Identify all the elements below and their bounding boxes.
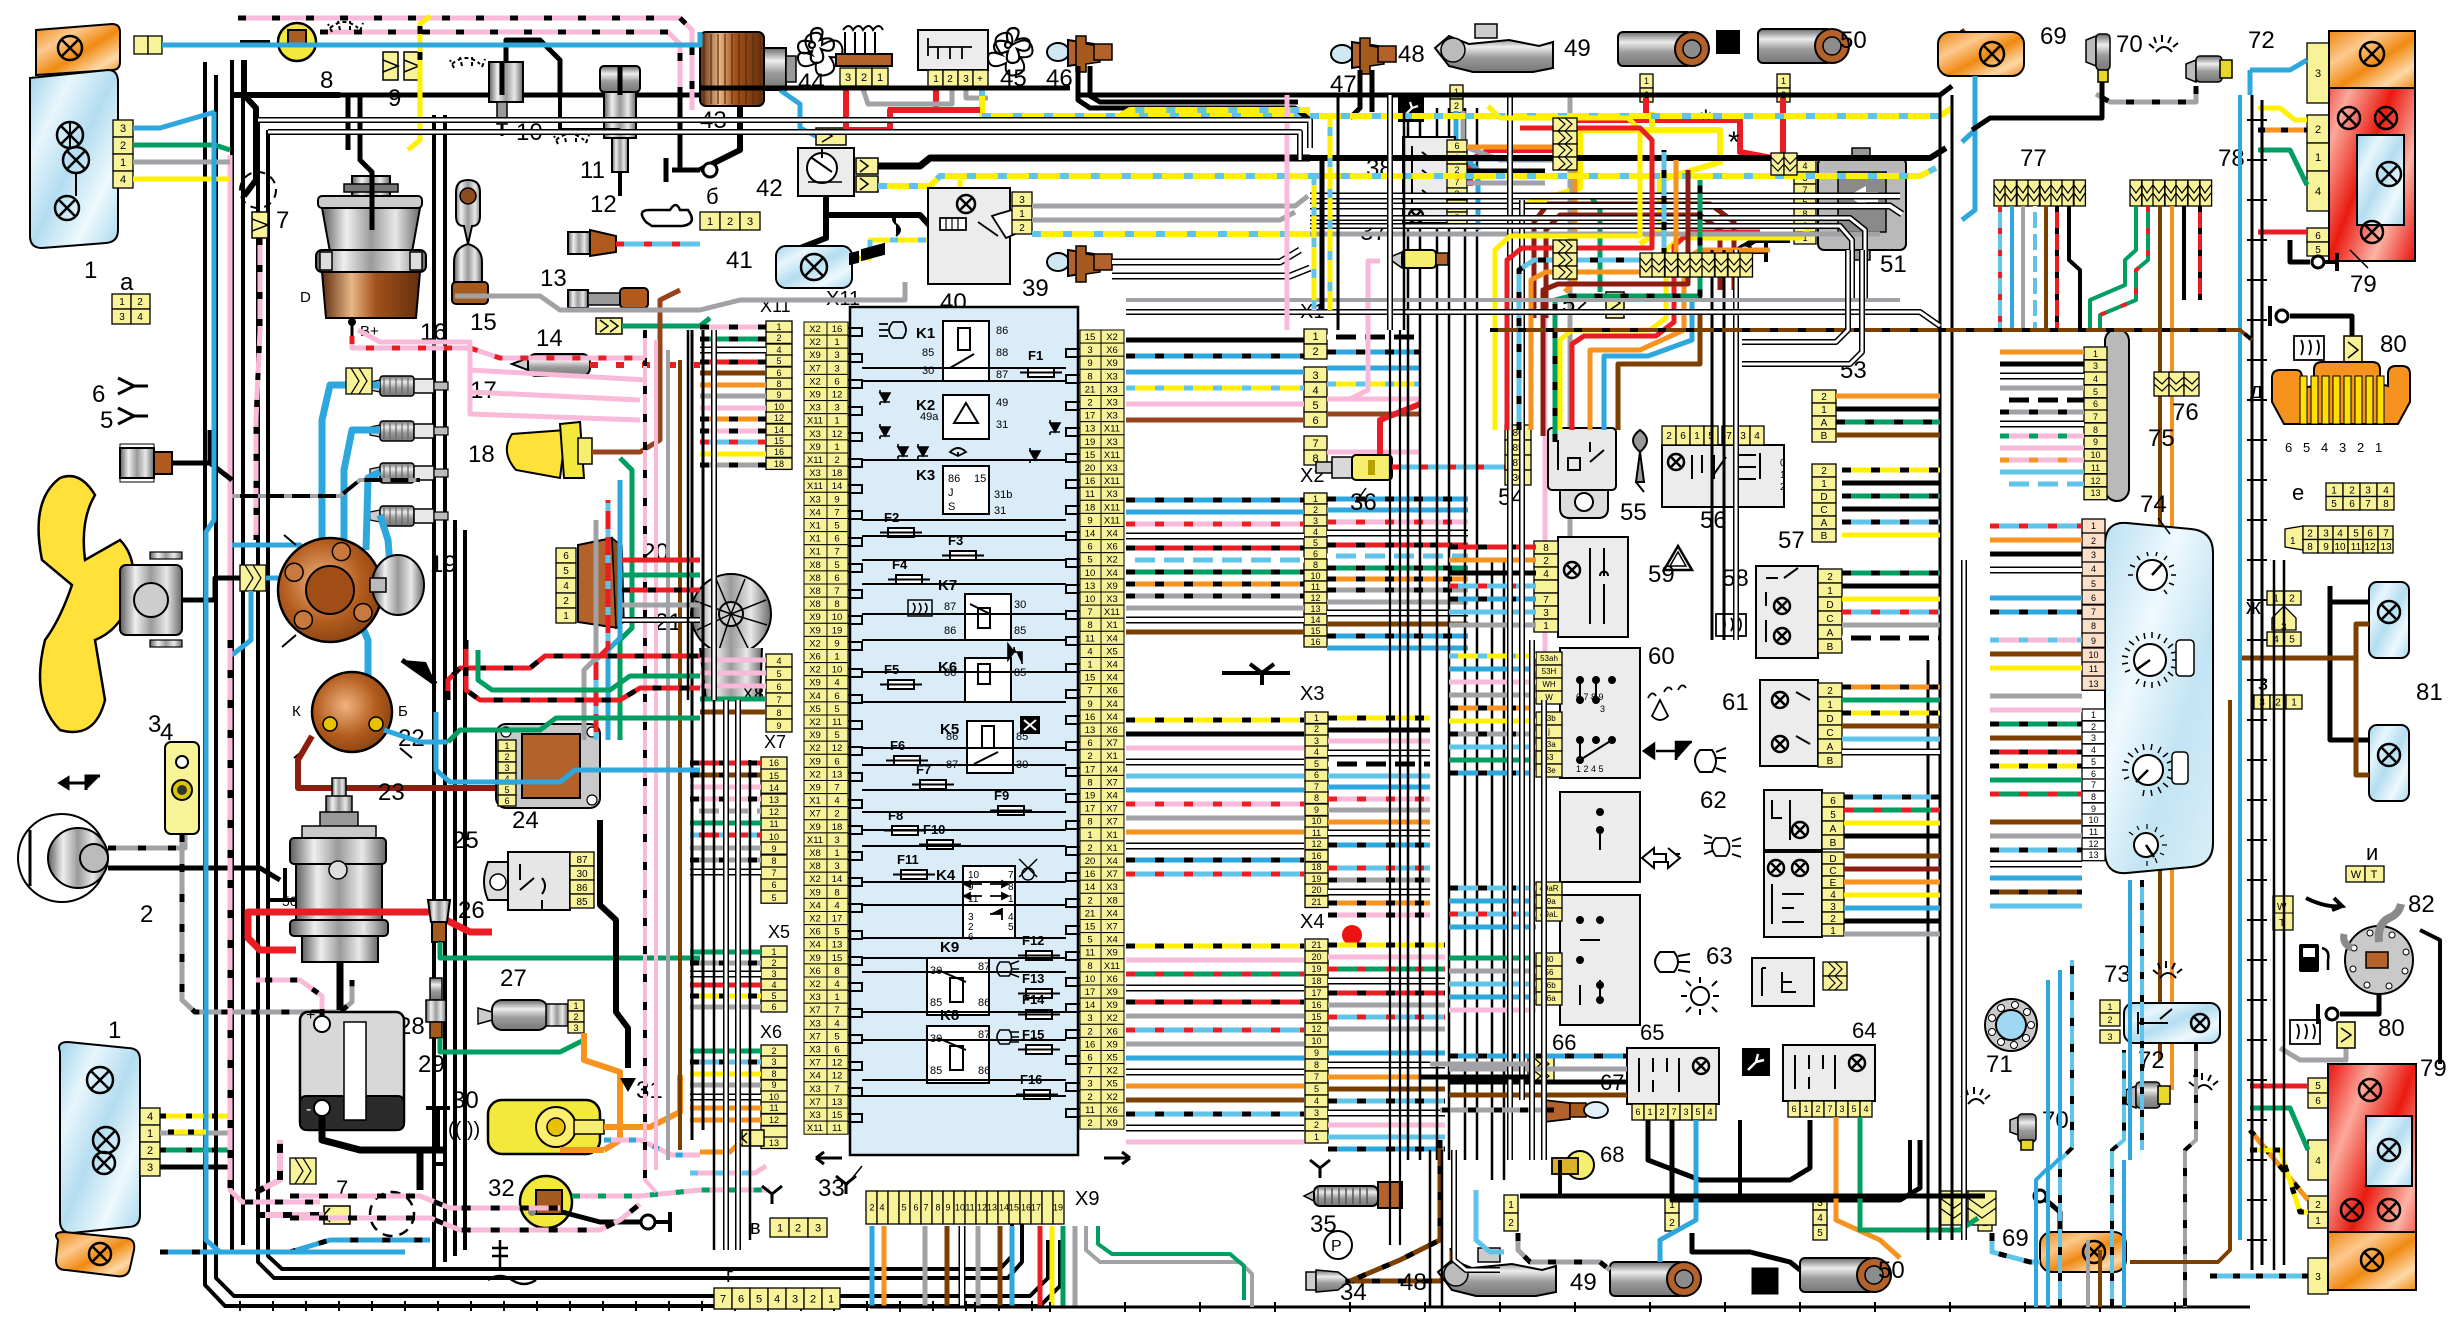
svg-text:X9: X9: [809, 953, 821, 964]
svg-text:X3: X3: [1106, 882, 1118, 893]
svg-text:15: 15: [1085, 332, 1096, 343]
svg-text:-: -: [306, 1101, 311, 1118]
svg-text:50: 50: [282, 893, 298, 909]
svg-text:1: 1: [1019, 209, 1025, 220]
wire left pink long: [230, 640, 320, 1202]
wire 81 black: [2330, 586, 2369, 602]
svg-text:10: 10: [774, 402, 784, 412]
window symbol 64-65: [1742, 1048, 1770, 1076]
svg-text:A: A: [1827, 742, 1834, 753]
svg-text:X3: X3: [1106, 437, 1118, 448]
starter 23 gear: [320, 812, 358, 828]
wire hlBL pin2 green: [160, 1148, 230, 1153]
wire yellow top left: [408, 60, 420, 150]
svg-text:5: 5: [1817, 1228, 1823, 1239]
svg-text:18: 18: [832, 822, 843, 833]
svg-text:14: 14: [832, 481, 843, 492]
svg-text:18: 18: [774, 459, 784, 469]
frame loop top runs: [258, 120, 1310, 148]
svg-text:X9: X9: [1106, 581, 1118, 592]
wire 43 blue: [780, 90, 816, 136]
svg-text:9: 9: [1087, 515, 1092, 526]
switch 62 pins b: [1822, 852, 1844, 937]
svg-text:X3: X3: [809, 1110, 821, 1121]
svg-text:6: 6: [2315, 1096, 2321, 1107]
connector 20: [556, 548, 576, 623]
svg-text:5: 5: [776, 356, 781, 366]
svg-text:16: 16: [1085, 476, 1096, 487]
svg-text:14: 14: [536, 325, 563, 352]
svg-text:6: 6: [771, 880, 776, 890]
svg-text:X2: X2: [809, 743, 821, 754]
svg-text:X7: X7: [764, 732, 786, 752]
svg-text:66: 66: [1552, 1030, 1576, 1055]
svg-text:6: 6: [1087, 1053, 1092, 1064]
svg-text:1: 1: [834, 337, 839, 348]
svg-text:1: 1: [2091, 521, 2096, 531]
svg-text:2: 2: [1087, 398, 1092, 409]
svg-text:X3: X3: [1106, 371, 1118, 382]
heat symbol 80b: [2290, 1020, 2320, 1044]
svg-text:30: 30: [1014, 599, 1026, 611]
switch 59 pins: [1534, 541, 1558, 632]
svg-text:+: +: [977, 74, 983, 85]
wire 49-50 yellow: [1502, 112, 1652, 206]
lamp 18 body: [507, 430, 566, 478]
ht wire coil: [352, 610, 368, 712]
svg-text:6: 6: [776, 682, 781, 692]
symbol washer: [1648, 685, 1686, 720]
wire fan43 top: [232, 32, 700, 45]
tail 79b strip: [2308, 1078, 2328, 1108]
svg-text:К: К: [292, 703, 301, 720]
svg-text:8: 8: [2383, 499, 2389, 510]
svg-text:18: 18: [832, 468, 843, 479]
block 33 right pin strip: [1080, 330, 1124, 1129]
clock 42 pins: [856, 158, 878, 174]
svg-text:4: 4: [834, 796, 839, 807]
svg-text:X1: X1: [809, 521, 821, 532]
svg-text:8: 8: [834, 599, 839, 610]
svg-text:1: 1: [1644, 76, 1649, 86]
X1 fan wires: [1327, 335, 1420, 340]
horn 2 body: [18, 814, 106, 902]
svg-text:2: 2: [563, 596, 569, 607]
wire 13 green: [622, 318, 710, 326]
coil red bundle: [448, 656, 700, 700]
svg-text:1: 1: [2093, 349, 2098, 359]
svg-text:2: 2: [2091, 722, 2096, 732]
X8 fan wires: [700, 658, 766, 663]
svg-text:1: 1: [1087, 830, 1092, 841]
connector X1: [1304, 329, 1327, 465]
X9 bend wires right: [1086, 1226, 1252, 1307]
relay 61 box: [1760, 680, 1818, 766]
connector pins headlight TL: [113, 120, 133, 188]
alternator terminal: [348, 318, 356, 326]
svg-text:6: 6: [2367, 528, 2373, 539]
svg-text:X9: X9: [809, 612, 821, 623]
svg-text:6: 6: [913, 1203, 918, 1213]
wire 14 reddash: [590, 362, 700, 368]
svg-text:25: 25: [452, 827, 479, 854]
svg-text:3: 3: [2323, 528, 2329, 539]
svg-text:80: 80: [2380, 331, 2407, 358]
svg-text:X9: X9: [1106, 1000, 1118, 1011]
svg-text:26: 26: [458, 897, 485, 924]
wire 34 browndash: [1346, 1248, 1452, 1281]
svg-text:X6: X6: [809, 652, 821, 663]
dashed circle 7b: [370, 1192, 414, 1236]
svg-text:X2: X2: [1106, 1013, 1118, 1024]
wire 42 black down: [790, 196, 826, 252]
svg-text:11: 11: [2089, 664, 2098, 674]
svg-text:49: 49: [1564, 35, 1591, 62]
svg-text:4: 4: [1754, 431, 1760, 442]
wire top right brown dash: [1952, 30, 1965, 60]
svg-text:21: 21: [1311, 897, 1321, 907]
svg-text:10: 10: [1085, 594, 1096, 605]
svg-text:2: 2: [1815, 1104, 1820, 1114]
svg-text:X3: X3: [809, 429, 821, 440]
connector X4: [1305, 939, 1328, 1143]
svg-text:2: 2: [137, 297, 143, 308]
svg-text:4: 4: [879, 1203, 884, 1213]
svg-text:53ah: 53ah: [1540, 654, 1558, 663]
sensor 13: [568, 290, 588, 308]
svg-text:8: 8: [935, 1203, 940, 1213]
svg-text:19: 19: [1311, 964, 1321, 974]
tail lamp 79 top block: [2329, 31, 2415, 261]
svg-text:12: 12: [2090, 476, 2100, 486]
svg-text:8: 8: [834, 887, 839, 898]
module 24 plate: [496, 724, 600, 808]
svg-text:X7: X7: [1106, 804, 1118, 815]
svg-text:X6: X6: [1106, 1105, 1118, 1116]
window symbol 38: [1397, 97, 1399, 99]
svg-text:2: 2: [1087, 1118, 1092, 1129]
svg-text:17: 17: [832, 914, 843, 925]
conn20 wires right: [622, 558, 700, 563]
svg-text:7: 7: [1314, 1072, 1319, 1082]
connector X3: [1305, 712, 1328, 908]
connector X7: [761, 757, 787, 903]
svg-text:3: 3: [1683, 1107, 1688, 1117]
module24 wires up: [620, 458, 632, 740]
svg-text:X5: X5: [1106, 1053, 1118, 1064]
lock unit 51 pins: [1794, 160, 1816, 244]
svg-text:19: 19: [430, 551, 457, 578]
svg-text:X4: X4: [1106, 764, 1118, 775]
svg-text:73: 73: [2104, 961, 2131, 988]
svg-text:2: 2: [1314, 1120, 1319, 1130]
svg-text:14: 14: [999, 1203, 1009, 1213]
wire hl1 pin2 green: [133, 145, 230, 150]
svg-text:4: 4: [1314, 1096, 1319, 1106]
svg-text:X3: X3: [1300, 683, 1324, 705]
wiper motor 11: [600, 66, 640, 92]
svg-text:11: 11: [968, 894, 979, 905]
svg-text:14: 14: [774, 425, 784, 435]
svg-text:3: 3: [834, 403, 839, 414]
svg-text:11: 11: [1085, 948, 1095, 959]
svg-text:X1: X1: [1106, 620, 1118, 631]
window motor 48 bottom: [1438, 1248, 1556, 1296]
svg-text:9: 9: [1314, 805, 1319, 815]
wire hl1 top yellow connector: [134, 36, 162, 54]
svg-text:2: 2: [120, 140, 126, 152]
svg-text:7: 7: [771, 868, 776, 878]
svg-text:C: C: [1826, 614, 1833, 625]
connector X6: [761, 1045, 787, 1149]
wire hlBL pin4 yellow: [160, 1114, 230, 1119]
wire bottom frame ticks: [240, 1301, 1032, 1311]
svg-text:9: 9: [776, 721, 781, 731]
svg-text:69: 69: [2040, 23, 2067, 50]
svg-text:5: 5: [2315, 245, 2321, 256]
svg-text:X7: X7: [1106, 869, 1118, 880]
wire 79t blue: [2250, 60, 2307, 70]
connector g strip: [714, 1288, 840, 1309]
svg-text:2: 2: [834, 809, 839, 820]
svg-text:1: 1: [2331, 485, 2337, 496]
svg-text:X4: X4: [1106, 660, 1118, 671]
dashed circle sym left: [240, 172, 276, 208]
svg-text:17: 17: [1085, 411, 1096, 422]
right bus pair: [2251, 95, 2254, 1270]
tail 79b block: [2328, 1064, 2416, 1290]
fan 4 bolts: [150, 552, 182, 647]
svg-text:2: 2: [1830, 914, 1836, 925]
wire center vertical bus pair: [432, 115, 436, 1268]
svg-text:44: 44: [798, 69, 825, 96]
svg-text:D: D: [1829, 854, 1836, 865]
svg-text:1: 1: [1827, 700, 1833, 711]
wire 49-50 red: [1470, 98, 1646, 186]
junction strip 77: [1994, 180, 2085, 206]
svg-text:X4: X4: [1106, 568, 1118, 579]
svg-text:2: 2: [861, 72, 867, 84]
svg-text:7: 7: [2383, 528, 2389, 539]
svg-text:7: 7: [834, 1005, 839, 1016]
svg-text:76: 76: [2172, 399, 2199, 426]
svg-text:10: 10: [832, 665, 843, 676]
svg-text:X6: X6: [1106, 686, 1118, 697]
ignition switch 56 detail: [1668, 454, 1684, 470]
svg-text:2: 2: [140, 901, 153, 928]
hazard triangle: [1664, 546, 1692, 570]
wire pink vertical: [1545, 310, 1552, 670]
right bus extra pair: [2273, 560, 2276, 1270]
svg-text:9: 9: [834, 494, 839, 505]
wire 79t yellow: [2258, 108, 2307, 120]
lock motor 50 bottom: [1800, 1258, 1891, 1292]
cig symbol: [850, 214, 900, 264]
battery 29 body: [300, 1012, 404, 1130]
wire 79b green: [2250, 1108, 2308, 1150]
svg-text:X1: X1: [1106, 751, 1118, 762]
relay K3 box: [943, 466, 989, 514]
svg-text:1: 1: [84, 257, 97, 284]
svg-text:17: 17: [1085, 804, 1096, 815]
svg-text:5: 5: [834, 1031, 839, 1042]
svg-text:K1: K1: [916, 325, 935, 342]
fan4 connector: [240, 565, 266, 591]
svg-text:X3: X3: [1106, 384, 1118, 395]
svg-text:1: 1: [776, 322, 781, 332]
svg-text:77: 77: [2020, 145, 2047, 172]
svg-text:3: 3: [1839, 1104, 1844, 1114]
svg-text:1: 1: [2291, 698, 2297, 709]
clock 42 box: [798, 148, 854, 196]
symbol horn: [1644, 742, 1692, 760]
svg-text:D: D: [1820, 492, 1827, 503]
block 33 right arrow: [1104, 1152, 1130, 1164]
svg-text:10: 10: [2334, 542, 2346, 553]
wire 18 brown: [592, 290, 680, 452]
wire 40 yellowblue right: [1032, 231, 1310, 237]
svg-text:X7: X7: [809, 1005, 821, 1016]
svg-text:55: 55: [1620, 499, 1647, 526]
svg-text:8: 8: [320, 67, 333, 94]
alternator 16 body: [322, 272, 420, 318]
junction strip mid horizontal big: [1640, 253, 1753, 277]
sun symbol 73: [2153, 961, 2182, 978]
wire hl1 pin3 blue: [133, 112, 215, 128]
svg-text:1: 1: [933, 74, 939, 85]
lighter 40 pins: [1012, 192, 1032, 234]
svg-text:7: 7: [1314, 782, 1319, 792]
lock motor 49 top: [1618, 32, 1709, 66]
connector zh: [2267, 591, 2301, 605]
svg-text:X5: X5: [1106, 1079, 1118, 1090]
svg-text:69: 69: [2002, 1225, 2029, 1252]
svg-text:X7: X7: [1106, 738, 1118, 749]
svg-text:7: 7: [1671, 1107, 1676, 1117]
left bundle extra wires: [713, 700, 716, 1250]
svg-text:65: 65: [1640, 1020, 1664, 1045]
svg-text:9: 9: [945, 1203, 950, 1213]
svg-text:4: 4: [2337, 528, 2343, 539]
svg-text:2: 2: [1454, 101, 1459, 111]
svg-text:1: 1: [834, 652, 839, 663]
svg-text:X4: X4: [1106, 856, 1118, 867]
switch 60 pins b: [1536, 712, 1562, 777]
svg-text:X6: X6: [1106, 725, 1118, 736]
wire grey top: [455, 282, 905, 310]
svg-text:X4: X4: [1106, 529, 1118, 540]
svg-text:X2: X2: [809, 979, 821, 990]
block 33 internal wires: [862, 368, 1066, 1096]
svg-text:е: е: [2292, 480, 2304, 505]
svg-text:71: 71: [1986, 1051, 2013, 1078]
lamp holder 39: [1047, 246, 1112, 282]
svg-text:1: 1: [834, 416, 839, 427]
svg-text:2: 2: [2357, 440, 2364, 455]
resistor 44 pins: [840, 68, 888, 86]
fan 4 hub: [120, 565, 182, 635]
svg-text:87: 87: [944, 601, 956, 613]
wire sensor5 black: [172, 430, 210, 463]
wire center vertical bus 2: [453, 520, 457, 1256]
svg-text:F13: F13: [1022, 971, 1044, 986]
svg-text:X9: X9: [809, 442, 821, 453]
svg-text:13: 13: [2088, 679, 2098, 689]
svg-text:X3: X3: [1106, 411, 1118, 422]
svg-text:X8: X8: [1106, 895, 1118, 906]
svg-text:X11: X11: [807, 455, 823, 466]
block 33 internal stubs: [848, 328, 1080, 1122]
svg-text:10: 10: [1085, 974, 1096, 985]
svg-text:21: 21: [1311, 940, 1321, 950]
svg-text:12: 12: [832, 743, 843, 754]
svg-text:3: 3: [1830, 902, 1836, 913]
washer pump 10: [489, 62, 523, 102]
svg-text:3: 3: [2365, 485, 2371, 496]
svg-text:B: B: [1821, 431, 1828, 442]
svg-text:6: 6: [1314, 770, 1319, 780]
svg-text:*: *: [1700, 104, 1712, 137]
svg-text:7: 7: [1543, 595, 1549, 606]
svg-text:3: 3: [815, 1222, 821, 1234]
svg-text:15: 15: [769, 771, 779, 781]
cluster strip B: [2082, 519, 2105, 690]
connector z: [2254, 695, 2302, 709]
wire grey vertical: [1568, 95, 1573, 540]
top bus black wires: [1080, 86, 1952, 95]
tail 79b lamps: [2359, 1079, 2381, 1101]
wire 45 plus yellowblue: [982, 87, 1310, 116]
svg-text:68: 68: [1600, 1142, 1624, 1167]
svg-text:16: 16: [1311, 851, 1321, 861]
wires right bottom riser: [2060, 960, 2072, 1307]
connector X5: [761, 946, 787, 1012]
svg-text:X2: X2: [809, 665, 821, 676]
svg-text:5: 5: [834, 927, 839, 938]
svg-text:2: 2: [795, 1222, 801, 1234]
fuse F16: [1024, 1090, 1050, 1099]
svg-text:5: 5: [1087, 555, 1092, 566]
svg-text:X9: X9: [809, 783, 821, 794]
conn 12a: [1504, 1195, 1518, 1231]
svg-text:6: 6: [1454, 141, 1459, 151]
svg-text:3: 3: [792, 1293, 798, 1305]
svg-text:2: 2: [1827, 572, 1833, 583]
svg-text:X3: X3: [1106, 489, 1118, 500]
svg-text:15: 15: [832, 1110, 843, 1121]
wire top black bus: [232, 93, 700, 98]
svg-text:17: 17: [1085, 987, 1096, 998]
svg-text:11: 11: [1312, 828, 1321, 838]
svg-text:2: 2: [1087, 1092, 1092, 1103]
svg-text:X7: X7: [809, 1058, 821, 1069]
mounting block 33 body: [850, 307, 1078, 1155]
relay K2: [943, 395, 989, 439]
svg-text:D: D: [1826, 600, 1833, 611]
svg-text:12: 12: [1311, 839, 1321, 849]
wire hlBL pin1 grey: [160, 1131, 230, 1136]
wire 79b orange: [2250, 1130, 2308, 1200]
svg-text:4: 4: [1313, 527, 1318, 537]
wire 81 brown: [2356, 624, 2369, 658]
svg-text:48: 48: [1398, 41, 1425, 68]
svg-text:X3: X3: [809, 494, 821, 505]
wire black 43 bus: [232, 92, 340, 98]
switch 60 pins c: [1536, 882, 1562, 921]
svg-text:5: 5: [834, 521, 839, 532]
svg-text:K3: K3: [916, 467, 935, 484]
fuse F14: [1026, 1010, 1052, 1019]
